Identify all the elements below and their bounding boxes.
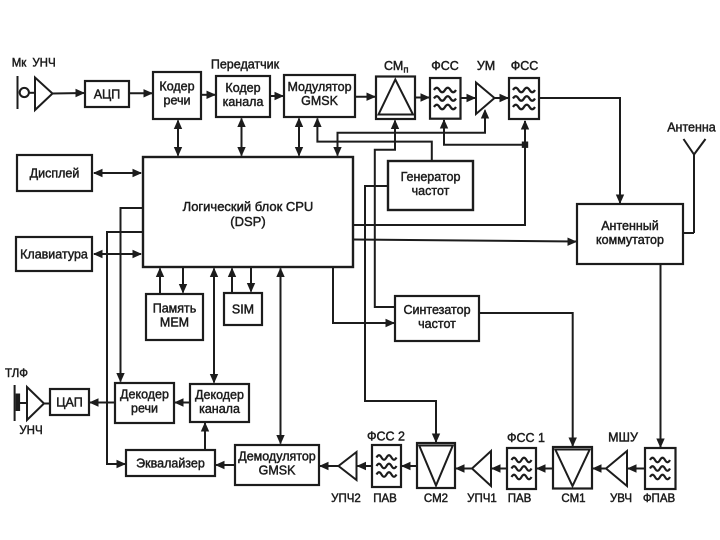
svg-text:ФПАВ: ФПАВ [643, 493, 676, 505]
svg-text:УНЧ: УНЧ [19, 425, 42, 437]
svg-text:Мк: Мк [12, 58, 28, 70]
svg-text:ФСС 2: ФСС 2 [367, 430, 405, 444]
svg-text:Декодер: Декодер [195, 388, 244, 402]
svg-text:ПАВ: ПАВ [508, 493, 532, 505]
svg-text:ПАВ: ПАВ [373, 493, 397, 505]
svg-text:УНЧ: УНЧ [32, 58, 55, 70]
svg-text:УМ: УМ [477, 59, 495, 73]
svg-text:SIM: SIM [232, 303, 254, 317]
svg-text:речи: речи [131, 402, 158, 416]
svg-text:(DSP): (DSP) [230, 214, 265, 229]
svg-text:Декодер: Декодер [120, 388, 169, 402]
svg-text:коммутатор: коммутатор [596, 233, 664, 247]
svg-text:МШУ: МШУ [608, 431, 638, 445]
svg-text:УПЧ2: УПЧ2 [331, 493, 361, 505]
svg-text:GMSK: GMSK [301, 94, 338, 108]
svg-text:АЦП: АЦП [94, 88, 121, 102]
svg-text:Синтезатор: Синтезатор [403, 303, 470, 317]
svg-text:Демодулятор: Демодулятор [238, 450, 316, 464]
svg-text:МЕМ: МЕМ [160, 316, 189, 330]
svg-text:канала: канала [199, 402, 240, 416]
svg-text:Антенна: Антенна [667, 121, 716, 135]
svg-text:Логический блок CPU: Логический блок CPU [183, 199, 314, 214]
svg-text:канала: канала [223, 95, 264, 109]
svg-text:Передатчик: Передатчик [211, 58, 280, 72]
svg-text:УПЧ1: УПЧ1 [467, 493, 497, 505]
svg-text:Эквалайзер: Эквалайзер [136, 457, 205, 471]
svg-text:ЦАП: ЦАП [56, 396, 82, 410]
svg-text:GMSK: GMSK [259, 464, 296, 478]
svg-text:Антенный: Антенный [601, 219, 659, 233]
svg-text:Дисплей: Дисплей [30, 167, 80, 181]
svg-text:частот: частот [418, 317, 456, 331]
svg-text:Память: Память [153, 302, 197, 316]
svg-text:частот: частот [412, 184, 450, 198]
svg-text:СМ1: СМ1 [561, 493, 585, 505]
svg-text:ФСС 1: ФСС 1 [507, 431, 545, 445]
svg-text:Модулятор: Модулятор [287, 80, 351, 94]
svg-text:речи: речи [164, 94, 191, 108]
svg-text:Кодер: Кодер [159, 80, 194, 94]
svg-text:Кодер: Кодер [225, 81, 260, 95]
svg-text:СМ2: СМ2 [424, 493, 448, 505]
svg-text:ФСС: ФСС [431, 59, 459, 73]
svg-text:Клавиатура: Клавиатура [20, 248, 88, 262]
svg-text:Генератор: Генератор [401, 170, 461, 184]
svg-text:ТЛФ: ТЛФ [5, 368, 28, 380]
svg-text:ФСС: ФСС [511, 59, 539, 73]
svg-text:УВЧ: УВЧ [610, 493, 632, 505]
